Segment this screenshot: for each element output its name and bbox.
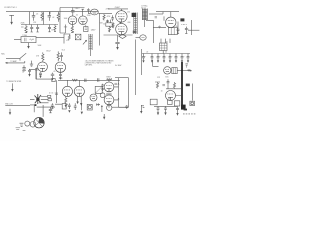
capacitor C37 [101,84,103,87]
tube V7 [55,62,65,72]
bottom mid row: wire [101,105,103,112]
capacitor C33 row2 [48,25,51,32]
wire right edge [188,29,199,31]
wire stage1 top [60,7,85,9]
left column wire [56,80,58,103]
wire [90,50,92,56]
box right [174,101,179,106]
small circle below box [100,93,105,98]
svg-text:T9: T9 [168,99,170,101]
svg-text:6C4: 6C4 [62,50,65,52]
cathode parts below V7 [59,72,62,77]
capacitor C11 [51,73,54,79]
wire L [64,34,71,44]
svg-text:+: + [184,56,185,58]
box T9 [168,100,173,104]
wire psu bottom [154,105,178,107]
ground arrow [103,114,105,120]
resistor R3 [25,25,27,33]
tube V13 [166,91,182,101]
wire [5,104,30,106]
capacitor C34 [155,17,157,18]
resistor R17 [68,34,70,40]
capacitor C19 [151,54,154,63]
box with circle [87,104,92,110]
svg-text:250: 250 [127,11,130,13]
svg-text:20: 20 [146,52,148,54]
wire [14,37,64,39]
capacitor C12 [28,69,31,74]
svg-text:B+ 360V: B+ 360V [115,65,122,67]
svg-text:12AX7: 12AX7 [75,7,80,10]
tube V1 [68,16,77,25]
ground arrow [39,76,41,79]
wire thin right [192,84,194,101]
svg-text:.05: .05 [36,14,38,16]
meter box with diagonal [95,86,102,93]
notes trailing dashes [102,62,114,64]
svg-text:.05: .05 [53,71,55,73]
tube V6 [38,62,48,72]
wire [117,35,119,42]
capacitor C21 [163,54,166,63]
dashed line [183,113,196,115]
wire stage1 vertical [59,8,61,34]
resistor R16 row2 [54,25,56,32]
wire [67,80,79,86]
rectifier box [160,43,168,51]
tube V14 small [164,67,171,74]
arrow down [140,111,142,114]
left column wire [35,68,38,80]
ground arrow [81,112,83,115]
capacitor C28 [164,106,167,115]
hatch ground [30,61,33,67]
capacitor C40 [162,85,165,86]
svg-text:40: 40 [176,26,178,28]
small tube V10 [90,94,97,101]
wire row link [55,103,68,105]
wire [29,123,31,125]
wire long vertical center [135,40,137,96]
svg-text:J1 INPUT NO.1: J1 INPUT NO.1 [4,7,16,9]
transformer T1 output [134,13,137,35]
transformer T2 power [142,9,147,21]
jack symbol [6,53,26,60]
capacitor C36 bus end [98,78,99,82]
small box [62,104,66,109]
capacitor C14 in bus [85,79,86,82]
svg-text:1500: 1500 [64,27,68,29]
wire [149,13,163,15]
tube V12 [104,95,114,108]
arrow tick [101,105,103,107]
wire [162,51,164,54]
wire [112,106,126,108]
capacitor C18 [142,54,145,63]
dashes [20,123,24,126]
capacitor C30 [51,103,54,108]
tube V9 [74,86,84,96]
resistor R12 [155,82,160,88]
dark bottom block [181,105,186,110]
tiny box [48,99,51,101]
wire short [60,25,65,34]
capacitor C25 [187,54,190,63]
tube V11 [104,82,114,92]
wire transformer lead [144,20,146,27]
ground arrow [116,47,119,50]
r-shape component [141,105,144,111]
dark junction dot [34,104,36,106]
wire [153,60,159,66]
tiny box [48,95,51,97]
transformer T3 interstage [89,34,92,50]
ground arrow [76,102,78,105]
resistor R14 left of V4 [112,22,114,27]
svg-text:+: + [145,56,146,58]
wire [108,80,110,82]
svg-text:TONE: TONE [22,35,26,37]
wire grid V2 [82,9,85,16]
transformer T1 lower mark [133,31,137,34]
small box bottom [52,79,55,82]
wire lamp lead [136,37,140,39]
coupling network box [106,20,112,27]
dark tick [184,109,187,111]
svg-text:50: 50 [103,24,105,26]
resistor R9 in bus [72,79,77,81]
tick arrows [118,83,120,99]
switch star dark [35,94,42,104]
capacitor C35 [158,26,160,29]
tiny circle [25,121,30,126]
wire [177,22,179,30]
capacitor C13 [39,72,42,75]
capacitor C32 [114,83,117,84]
tube V2 [79,16,88,25]
wire [156,12,179,14]
svg-text:6V6: 6V6 [128,22,131,24]
ground arrow input [9,15,23,27]
down arrow remote [11,83,13,91]
svg-text:VOL: VOL [66,40,69,42]
wire vertical [119,78,129,108]
wire [28,12,30,25]
svg-text:40: 40 [165,52,167,54]
dark vertical line [181,62,183,108]
resistor R8 above V7 [57,51,59,61]
component [68,103,71,109]
capacitor C16 [49,107,52,113]
capacitor C10 [60,52,63,61]
notes text block [85,60,114,67]
arrow pot [83,40,87,44]
capacitor C27 [157,106,160,115]
resistor R10 below V8 [65,97,67,106]
tone network box [21,37,36,43]
wire oval leads [88,12,112,14]
box below V5 [168,28,177,35]
capacitor C22 [169,54,172,63]
capacitor C15 [55,93,58,94]
svg-text:10: 10 [22,71,24,73]
capacitor C41 right of line [185,64,188,68]
resistor R1 [41,12,43,21]
wire [114,87,119,100]
wire psu inner [166,86,181,88]
wire PSU bus [142,53,190,55]
resistor R13 [173,82,175,88]
wire V3 top lead [108,9,128,11]
svg-text:5Y3: 5Y3 [157,77,160,79]
ground arrow left [9,109,11,115]
cathode leads V9 [78,97,82,104]
capacitor C17 [125,105,128,109]
svg-text:TO REMOTE SPKR: TO REMOTE SPKR [6,81,22,83]
tube V5 rectifier [166,17,176,27]
small circle component [107,105,112,110]
junction marks between V11 V12 [106,93,111,94]
wire vertical [118,78,120,108]
capacitor C4 [36,25,39,33]
ground arrow [68,110,70,113]
capacitor C9 [22,65,25,71]
resistor R4 below V1 [71,25,74,33]
wire long vertical left of output tubes [99,13,101,45]
capacitor C31 left of V3 [111,15,114,21]
capacitor C1 [32,12,35,21]
tube V4 [116,23,127,34]
wire [43,12,45,25]
component with ground [74,103,77,110]
capacitor C5 [71,8,75,17]
capacitor C8 [185,27,188,34]
wire speaker top [37,105,55,117]
wire psu input L [146,16,166,43]
svg-text:6SQ7: 6SQ7 [46,51,50,53]
dots row [49,92,54,94]
box left [150,99,157,105]
corner marks [16,128,26,131]
svg-text:.02: .02 [76,14,78,16]
box with circle [190,101,195,105]
resistor R15 [188,70,192,72]
wire [190,20,192,35]
capacitor C23 [175,54,178,63]
PSU verticals [161,39,170,43]
capacitor C29 [176,106,179,115]
dark blob [180,18,184,21]
pilot circle [30,122,36,128]
ground arrow [65,105,67,108]
ground arrow [80,103,82,106]
dots [182,23,187,25]
wire left of PSU [141,49,143,75]
junction marks between V3 V4 [119,22,121,24]
wire arrow left [5,61,25,64]
capacitor C39 left of oval [87,8,89,13]
wire mid horizontal [104,34,133,36]
switch legs [30,97,49,103]
wire [177,70,191,72]
svg-text:6X5: 6X5 [165,77,168,79]
capacitor C2 [48,12,51,21]
capacitor C6 [115,42,119,47]
jack oval J2 [91,9,99,15]
box component below V2 [84,25,88,32]
ground arrow [28,74,30,77]
capacitor C26 [167,79,170,86]
wire [30,105,34,112]
box right of V14 [172,68,177,74]
dark side mark [186,84,190,87]
ground arrow [51,78,53,81]
component horizontal [96,103,100,105]
wire dot [81,104,83,110]
wire second row [21,24,58,26]
capacitor C3 [30,25,33,33]
phase splitter diamond [119,34,126,38]
tube V3 [116,11,127,22]
capacitor C7 [177,29,180,33]
svg-text:2. RESISTORS 1/2 WATT UNLESS N: 2. RESISTORS 1/2 WATT UNLESS NOTED [85,62,112,65]
speaker [34,118,44,128]
svg-text:+: + [172,56,173,58]
resistor R5 [103,14,105,20]
wire top bus [6,11,98,13]
ground arrow below box [27,43,30,49]
box with X [75,34,81,40]
pilot lamp oval [140,35,146,40]
capacitor C38 [101,88,103,91]
wire bottom bus [58,79,120,81]
tube V8 [62,86,72,96]
resistor R7 above V6 [42,52,44,61]
svg-text:6V6GT: 6V6GT [115,7,120,9]
transformer T1 core dark [132,13,137,17]
wire drop [49,12,51,15]
wire mid horizontal [115,77,129,79]
svg-text:+: + [160,56,161,58]
svg-text:10: 10 [161,90,163,92]
svg-text:.02: .02 [52,17,54,19]
capacitor C20 [157,54,160,63]
capacitor C24 [181,54,184,63]
ground arrow [59,77,61,80]
resistor R2 [57,12,59,22]
resistor R11 horizontal [107,79,112,81]
wire [29,70,52,79]
wire V5 top [170,12,172,18]
resistor R6 [108,26,110,32]
